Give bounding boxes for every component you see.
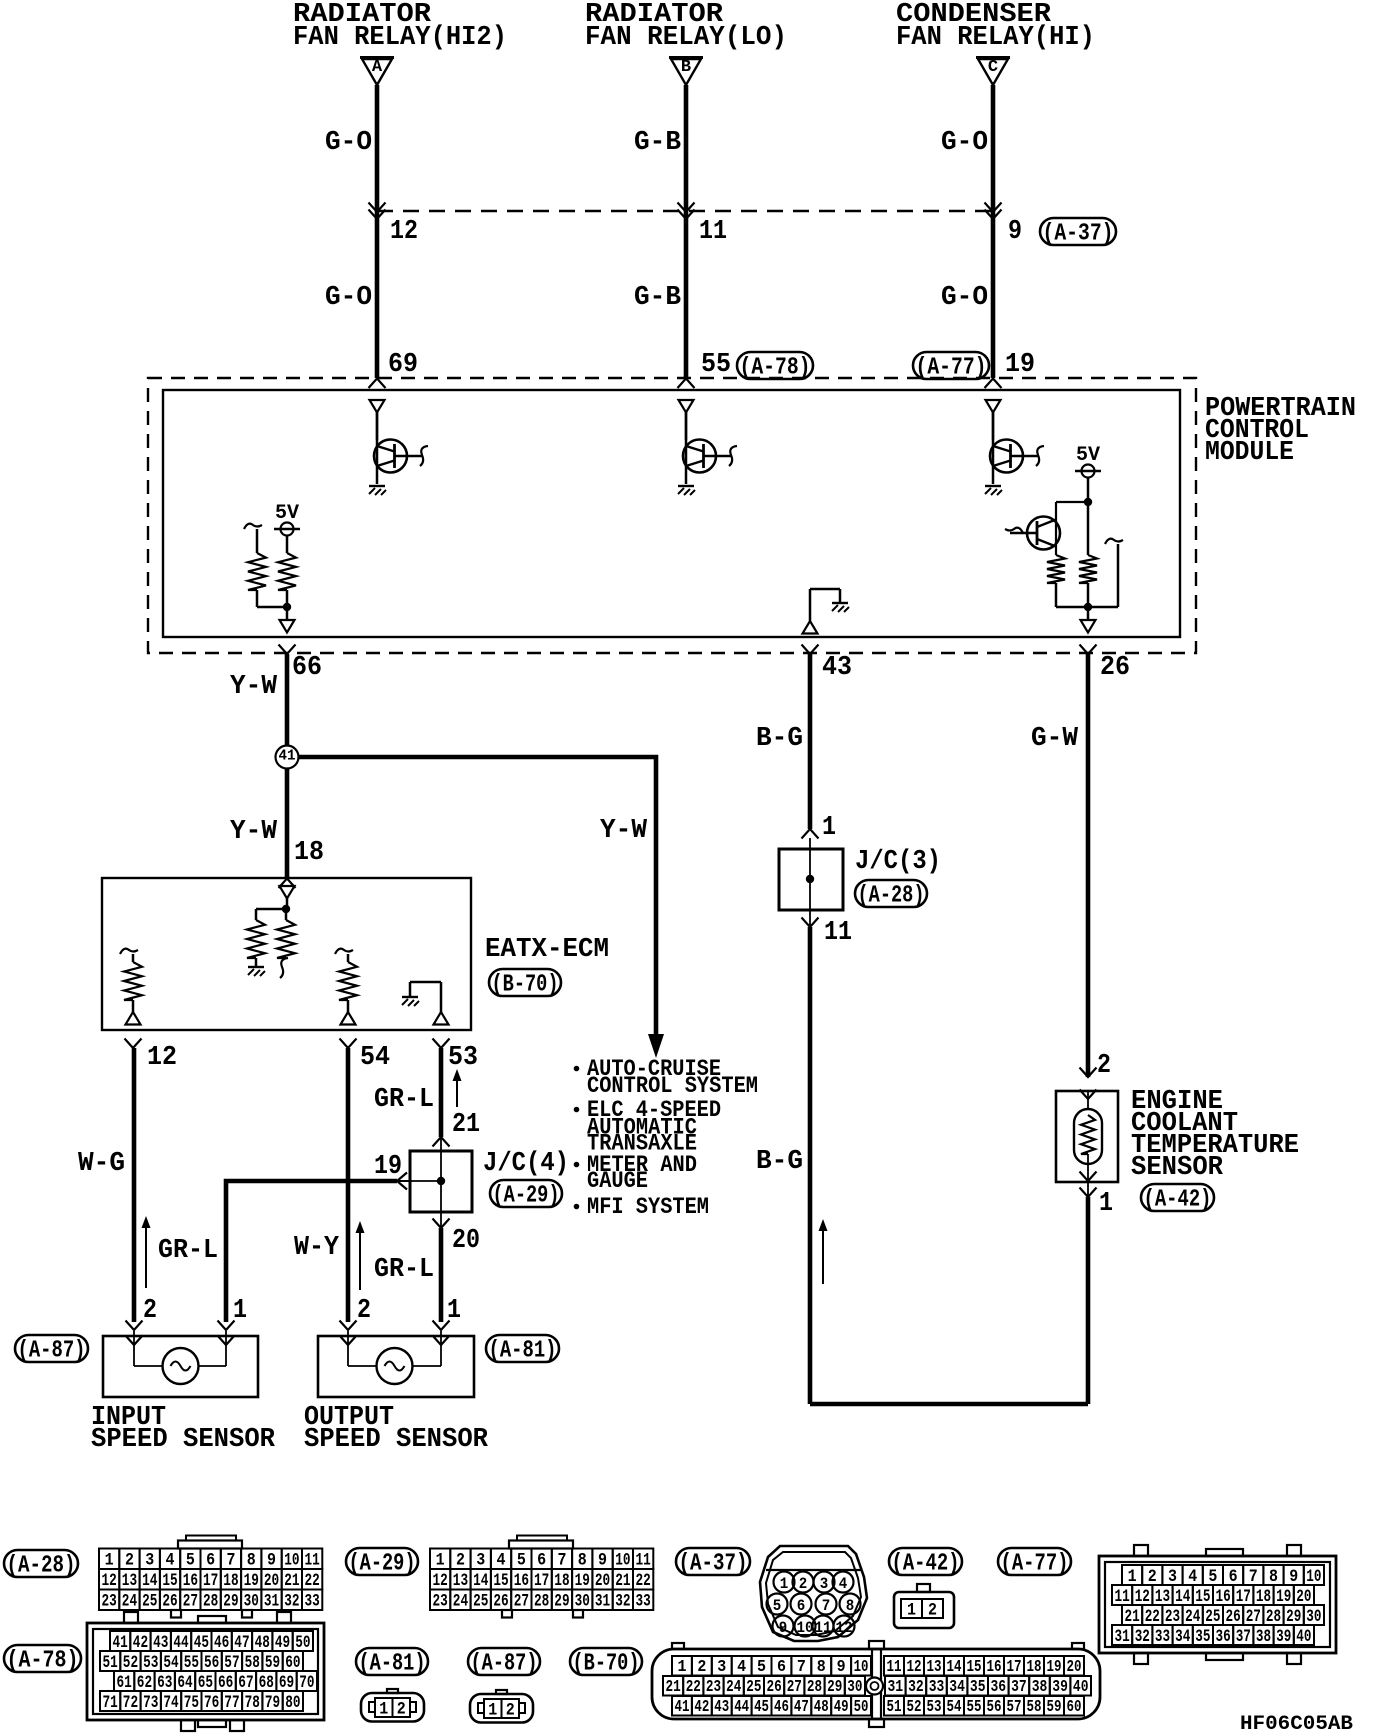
svg-text:30: 30 [847,1677,862,1696]
svg-text:20: 20 [595,1571,610,1591]
svg-text:42: 42 [694,1697,709,1716]
svg-text:4: 4 [839,1575,848,1593]
double chevron junction [678,203,695,213]
svg-text:26: 26 [162,1592,177,1612]
PCM pin 19 entry arrow [985,379,1002,389]
svg-text:2: 2 [357,1296,371,1326]
svg-text:54: 54 [360,1043,390,1073]
connector pinout A-28 (33-pin) [178,1541,242,1549]
svg-text:31: 31 [264,1592,279,1612]
svg-text:SPEED SENSOR: SPEED SENSOR [91,1425,276,1455]
svg-text:21: 21 [1125,1607,1140,1627]
svg-text:29: 29 [554,1592,569,1612]
svg-text:3: 3 [145,1551,154,1571]
svg-text:32: 32 [908,1677,924,1696]
resistor R5 (EATX left) [247,920,265,958]
connector ref (B-70) [489,969,561,996]
transistor Q2 (radiator fan lo driver) [683,440,716,473]
J/C(3) pin 1 arrow [802,829,819,839]
svg-text:(A-87): (A-87) [471,1650,538,1677]
svg-text:79: 79 [265,1693,280,1713]
wire G-O to PCM pin 19 [991,211,996,378]
svg-text:53: 53 [927,1697,942,1716]
PCM pin 55 internal pin triangle [679,400,694,413]
svg-text:39: 39 [1052,1677,1068,1696]
connector pinout A-37 (12-pin round) [760,1546,867,1641]
svg-text:14: 14 [1175,1587,1190,1607]
svg-text:B: B [681,58,691,77]
double chevron junction [985,203,1002,213]
svg-text:9: 9 [1008,217,1022,247]
svg-text:49: 49 [275,1633,290,1653]
connector ref (A-42) [1141,1184,1214,1211]
svg-text:G-O: G-O [941,283,988,313]
svg-text:67: 67 [238,1673,253,1693]
input speed sensor (AC generator symbol) [126,1321,143,1331]
svg-text:35: 35 [970,1677,986,1696]
svg-text:A: A [372,58,383,77]
svg-text:SENSOR: SENSOR [1131,1153,1224,1183]
svg-text:13: 13 [453,1571,468,1591]
svg-text:59: 59 [1047,1697,1062,1716]
svg-text:Y-W: Y-W [230,817,278,847]
svg-text:2: 2 [397,1699,406,1719]
svg-text:W-Y: W-Y [294,1233,340,1263]
resistor R3 (below Q4) [1047,555,1065,583]
svg-text:11: 11 [815,1619,832,1637]
svg-text:5: 5 [773,1597,782,1615]
svg-text:26: 26 [493,1592,508,1612]
svg-text:18: 18 [554,1571,569,1591]
svg-text:16: 16 [1216,1587,1231,1607]
svg-text:4: 4 [1188,1567,1197,1587]
svg-text:12: 12 [102,1571,117,1591]
svg-text:GR-L: GR-L [374,1085,434,1115]
wire W-G pin12 to input sensor pin 2 [132,1048,137,1322]
svg-text:9: 9 [267,1551,276,1571]
wire W-Y pin54 to output sensor pin 2 [346,1048,351,1322]
resistor R6 (EATX right) [277,920,295,958]
svg-text:1: 1 [822,813,836,843]
output speed sensor (AC generator symbol) [340,1321,357,1331]
svg-text:52: 52 [907,1697,922,1716]
svg-text:2: 2 [928,1600,937,1620]
svg-text:65: 65 [198,1673,213,1693]
svg-text:52: 52 [123,1653,138,1673]
svg-text:21: 21 [452,1110,480,1140]
svg-text:73: 73 [143,1693,158,1713]
svg-text:31: 31 [888,1677,904,1696]
svg-text:5: 5 [757,1657,766,1676]
connector pinout A-29 (33-pin) [509,1541,573,1549]
svg-text:(A-77): (A-77) [1001,1550,1069,1577]
EATX pin 53 exit arrow [433,1039,450,1049]
svg-text:54: 54 [163,1653,178,1673]
svg-text:15: 15 [162,1571,177,1591]
svg-text:2: 2 [125,1551,134,1571]
svg-text:2: 2 [506,1700,515,1720]
svg-text:3: 3 [1168,1567,1177,1587]
PCM pin 69 internal pin triangle [370,400,385,413]
svg-text:38: 38 [1256,1627,1271,1647]
svg-text:2: 2 [697,1657,706,1676]
EATX-ECM box [102,878,471,1030]
junction node 41 (circled) [276,746,299,769]
svg-text:57: 57 [1007,1697,1022,1716]
svg-text:25: 25 [1205,1607,1220,1627]
flow arrow [359,1230,361,1290]
resistor R2 (pull-up right) [286,536,289,554]
svg-text:39: 39 [1276,1627,1291,1647]
svg-text:51: 51 [887,1697,902,1716]
svg-text:58: 58 [1027,1697,1042,1716]
connector ref (A-28) [855,880,927,907]
wire into J/C(3) [809,838,811,849]
svg-text:16: 16 [514,1571,529,1591]
svg-text:19: 19 [575,1571,590,1591]
svg-text:22: 22 [686,1677,701,1696]
PCM pin 43 exit arrow [802,645,819,655]
svg-text:6: 6 [537,1551,546,1571]
svg-text:EATX-ECM: EATX-ECM [485,935,609,965]
wire bottom link B-G to ECT sensor [810,1402,1088,1407]
svg-text:24: 24 [1185,1607,1200,1627]
svg-text:23: 23 [1165,1607,1180,1627]
ECT internal pin arrow top [1080,1090,1097,1100]
connector ref (A-42) bottom [889,1548,962,1575]
junction node [283,603,291,611]
connector pin C (relay triangle) [976,56,1010,59]
powertrain control module dashed boundary [148,378,1196,653]
svg-text:(A-81): (A-81) [359,1650,426,1677]
svg-text:32: 32 [1135,1627,1150,1647]
svg-text:27: 27 [183,1592,198,1612]
svg-text:18: 18 [223,1571,238,1591]
svg-text:48: 48 [255,1633,270,1653]
svg-text:Y-W: Y-W [230,672,278,702]
junction connector J/C(4) [410,1151,472,1212]
svg-text:GR-L: GR-L [374,1255,434,1285]
svg-text:26: 26 [1226,1607,1241,1627]
svg-text:18: 18 [1256,1587,1271,1607]
svg-text:8: 8 [817,1657,826,1676]
connector pinout A-78 (40-pin) [87,1623,324,1720]
svg-text:G-O: G-O [941,128,988,158]
svg-text:MFI SYSTEM: MFI SYSTEM [587,1194,709,1220]
wire node to Q4 collector branch [1056,501,1088,503]
PCM pin 43 internal pin triangle [803,621,818,634]
svg-text:12: 12 [433,1571,448,1591]
svg-text:5: 5 [186,1551,195,1571]
svg-text:(A-37): (A-37) [679,1550,748,1577]
svg-text:J/C(3): J/C(3) [855,847,941,877]
svg-text:20: 20 [1067,1657,1082,1676]
svg-text:4: 4 [166,1551,175,1571]
svg-text:46: 46 [214,1633,229,1653]
thermistor element [1074,1109,1102,1164]
svg-text:37: 37 [1011,1677,1027,1696]
PCM pin 66 exit arrow [279,645,296,655]
svg-text:J/C(4): J/C(4) [483,1149,569,1179]
svg-text:28: 28 [1266,1607,1281,1627]
svg-text:47: 47 [234,1633,249,1653]
svg-text:43: 43 [714,1697,729,1716]
svg-text:59: 59 [265,1653,280,1673]
svg-text:(A-28): (A-28) [7,1552,76,1579]
wire Y-W from PCM pin 66 [285,654,290,746]
svg-text:1: 1 [379,1699,388,1719]
svg-text:17: 17 [1007,1657,1022,1676]
svg-text:76: 76 [204,1693,219,1713]
wire pin 43 to internal ground [809,589,812,621]
svg-text:53: 53 [143,1653,158,1673]
svg-text:19: 19 [374,1152,402,1182]
svg-text:8: 8 [578,1551,587,1571]
connector ref (A-81) bottom [356,1648,428,1675]
svg-text:27: 27 [514,1592,529,1612]
svg-text:5V: 5V [1076,444,1100,467]
ground (EATX internal) [248,966,264,968]
junction J/C(4) pin 21 arrow [433,1137,450,1147]
list of connected systems (AUTO-CRUISE, ELC 4-SPEED AUTOMATIC TRANSAXLE, METER AND GAUGE, MFI SYSTEM) [574,1066,580,1072]
svg-text:G-W: G-W [1031,724,1079,754]
connector ref (A-87) [15,1335,88,1362]
wire hook branch right [1105,539,1123,544]
svg-text:9: 9 [779,1619,788,1637]
svg-text:5: 5 [1208,1567,1217,1587]
svg-text:3: 3 [820,1575,829,1593]
wire G-W ECT pin 1 down [1086,1197,1091,1404]
svg-text:20: 20 [1296,1587,1311,1607]
svg-text:3: 3 [717,1657,726,1676]
svg-text:75: 75 [184,1693,199,1713]
ground (PCM internal) [832,602,848,604]
connector ref (A-77) [913,352,989,379]
svg-text:29: 29 [827,1677,842,1696]
wire B-G J/C(3) to sensor return [808,927,813,1404]
PCM pin 26 exit arrow [1080,645,1097,655]
svg-text:21: 21 [615,1571,630,1591]
svg-text:31: 31 [595,1592,610,1612]
wire 5V to node [1087,478,1090,503]
svg-text:25: 25 [473,1592,488,1612]
flow arrow [145,1225,147,1288]
EATX pin 18 internal triangle [280,886,295,899]
svg-text:6: 6 [797,1597,806,1615]
svg-text:35: 35 [1195,1627,1210,1647]
5V supply (right) [1075,470,1101,473]
svg-text:11: 11 [699,217,727,247]
svg-text:2: 2 [1148,1567,1157,1587]
svg-text:33: 33 [636,1592,651,1612]
svg-text:9: 9 [1289,1567,1298,1587]
svg-text:60: 60 [285,1653,300,1673]
engine coolant temperature sensor box [1056,1091,1118,1182]
svg-text:(B-70): (B-70) [573,1650,640,1677]
svg-text:7: 7 [226,1551,235,1571]
svg-text:19: 19 [1047,1657,1062,1676]
svg-text:57: 57 [224,1653,239,1673]
svg-text:W-G: W-G [78,1149,125,1179]
connector ref (A-37) bottom [676,1548,750,1575]
svg-text:13: 13 [1155,1587,1170,1607]
svg-text:20: 20 [452,1226,480,1256]
svg-text:9: 9 [598,1551,607,1571]
svg-text:G-B: G-B [634,283,681,313]
EATX pin 18 entry arrow [279,879,296,889]
svg-text:66: 66 [292,653,322,683]
svg-text:19: 19 [1005,350,1035,380]
inter-harness dashed line (A-37) [377,210,993,212]
svg-text:41: 41 [675,1697,690,1716]
svg-text:26: 26 [767,1677,782,1696]
svg-text:66: 66 [218,1673,233,1693]
double chevron junction [369,203,386,213]
svg-text:56: 56 [987,1697,1002,1716]
svg-text:24: 24 [453,1592,468,1612]
PCM pin 55 entry arrow [678,379,695,389]
svg-text:40: 40 [1073,1677,1089,1696]
svg-text:77: 77 [224,1693,239,1713]
svg-text:31: 31 [1115,1627,1130,1647]
svg-text:4: 4 [497,1551,506,1571]
svg-text:CONTROL SYSTEM: CONTROL SYSTEM [587,1073,758,1099]
svg-text:78: 78 [245,1693,260,1713]
connector ref (A-81) [486,1335,559,1362]
svg-text:20: 20 [264,1571,279,1591]
svg-text:14: 14 [947,1657,962,1676]
svg-text:64: 64 [177,1673,192,1693]
svg-text:36: 36 [1216,1627,1231,1647]
svg-text:7: 7 [797,1657,806,1676]
svg-text:43: 43 [153,1633,168,1653]
svg-text:G-O: G-O [325,283,372,313]
svg-text:12: 12 [147,1043,177,1073]
wire J/C(4) pin 19 lead [412,1180,441,1182]
svg-text:(A-81): (A-81) [489,1337,557,1364]
svg-text:FAN RELAY(HI2): FAN RELAY(HI2) [293,23,507,53]
svg-text:GR-L: GR-L [158,1236,218,1266]
svg-text:G-O: G-O [325,128,372,158]
svg-text:13: 13 [122,1571,137,1591]
svg-text:6: 6 [1229,1567,1238,1587]
EATX pin 12 internal triangle [126,1012,141,1025]
svg-text:14: 14 [142,1571,157,1591]
svg-text:60: 60 [1067,1697,1082,1716]
wire R1/R2 junction to output [256,590,259,607]
svg-text:FAN RELAY(HI): FAN RELAY(HI) [896,23,1095,53]
svg-text:56: 56 [204,1653,219,1673]
J/C(4) pin 20 arrow [433,1219,450,1229]
svg-text:33: 33 [1155,1627,1170,1647]
svg-text:23: 23 [102,1592,117,1612]
svg-text:48: 48 [814,1697,829,1716]
svg-text:16: 16 [987,1657,1002,1676]
svg-text:16: 16 [183,1571,198,1591]
svg-text:42: 42 [133,1633,148,1653]
svg-text:30: 30 [1306,1607,1321,1627]
svg-text:SPEED SENSOR: SPEED SENSOR [304,1425,489,1455]
svg-text:GAUGE: GAUGE [587,1168,648,1194]
PCM pin 69 entry arrow [369,379,386,389]
J/C(3) pin 11 arrow [802,918,819,928]
connector ref (A-87) bottom [468,1648,540,1675]
EATX pin 54 internal triangle [341,1012,356,1025]
wire G-O from relay A (upper) [375,85,380,211]
svg-text:FAN RELAY(LO): FAN RELAY(LO) [585,23,787,53]
svg-text:12: 12 [1135,1587,1150,1607]
wire B-G from PCM pin 43 [808,654,813,829]
svg-text:(A-87): (A-87) [18,1337,86,1364]
svg-text:1: 1 [488,1700,497,1720]
svg-text:53: 53 [448,1043,478,1073]
svg-text:7: 7 [557,1551,566,1571]
svg-text:38: 38 [1032,1677,1048,1696]
connector ref (A-28) bottom [4,1550,78,1577]
svg-text:24: 24 [122,1592,137,1612]
PCM pin 66 internal pin triangle [280,620,295,633]
connector ref (A-37) [1040,218,1116,245]
svg-text:17: 17 [1236,1587,1251,1607]
svg-text:11: 11 [824,918,852,948]
svg-text:28: 28 [534,1592,549,1612]
svg-text:80: 80 [285,1693,300,1713]
svg-text:51: 51 [103,1653,118,1673]
svg-text:61: 61 [117,1673,132,1693]
resistor R4 (5V pull-up) [1087,502,1090,555]
svg-text:45: 45 [194,1633,209,1653]
svg-text:37: 37 [1236,1627,1251,1647]
svg-text:25: 25 [746,1677,761,1696]
svg-text:5V: 5V [275,502,299,525]
svg-text:63: 63 [157,1673,172,1693]
svg-text:(B-70): (B-70) [492,971,559,998]
junction node [1084,498,1092,506]
svg-text:27: 27 [1246,1607,1261,1627]
svg-text:(A-29): (A-29) [349,1550,416,1577]
wire to internal resistors [256,908,286,911]
svg-text:9: 9 [837,1657,846,1676]
svg-text:22: 22 [1145,1607,1160,1627]
wire GR-L J/C(4) pin 20 to output sensor pin 1 [439,1228,444,1322]
svg-text:29: 29 [223,1592,238,1612]
svg-text:41: 41 [113,1633,128,1653]
svg-text:8: 8 [247,1551,256,1571]
svg-text:HF06C05AB: HF06C05AB [1240,1713,1353,1736]
svg-text:10: 10 [854,1657,869,1676]
svg-text:41: 41 [279,747,296,764]
svg-text:C: C [988,58,998,77]
svg-text:50: 50 [854,1697,869,1716]
svg-text:11: 11 [636,1551,651,1571]
connector pinout A-81 (2-pin) [361,1693,424,1722]
svg-text:45: 45 [754,1697,769,1716]
connector pinout B-70 (60-pin) [652,1649,1100,1719]
svg-text:54: 54 [947,1697,962,1716]
svg-text:2: 2 [799,1575,808,1593]
svg-text:1: 1 [780,1575,789,1593]
connector ref (A-29) [490,1180,562,1207]
flow arrow [456,1078,458,1107]
wire G-O to PCM pin 69 [375,211,380,378]
svg-text:23: 23 [433,1592,448,1612]
svg-text:15: 15 [967,1657,982,1676]
svg-text:(A-29): (A-29) [493,1182,560,1209]
svg-text:34: 34 [949,1677,965,1696]
svg-text:23: 23 [706,1677,721,1696]
resistor R8 (pin 54 pull) [335,949,353,954]
svg-text:55: 55 [967,1697,982,1716]
